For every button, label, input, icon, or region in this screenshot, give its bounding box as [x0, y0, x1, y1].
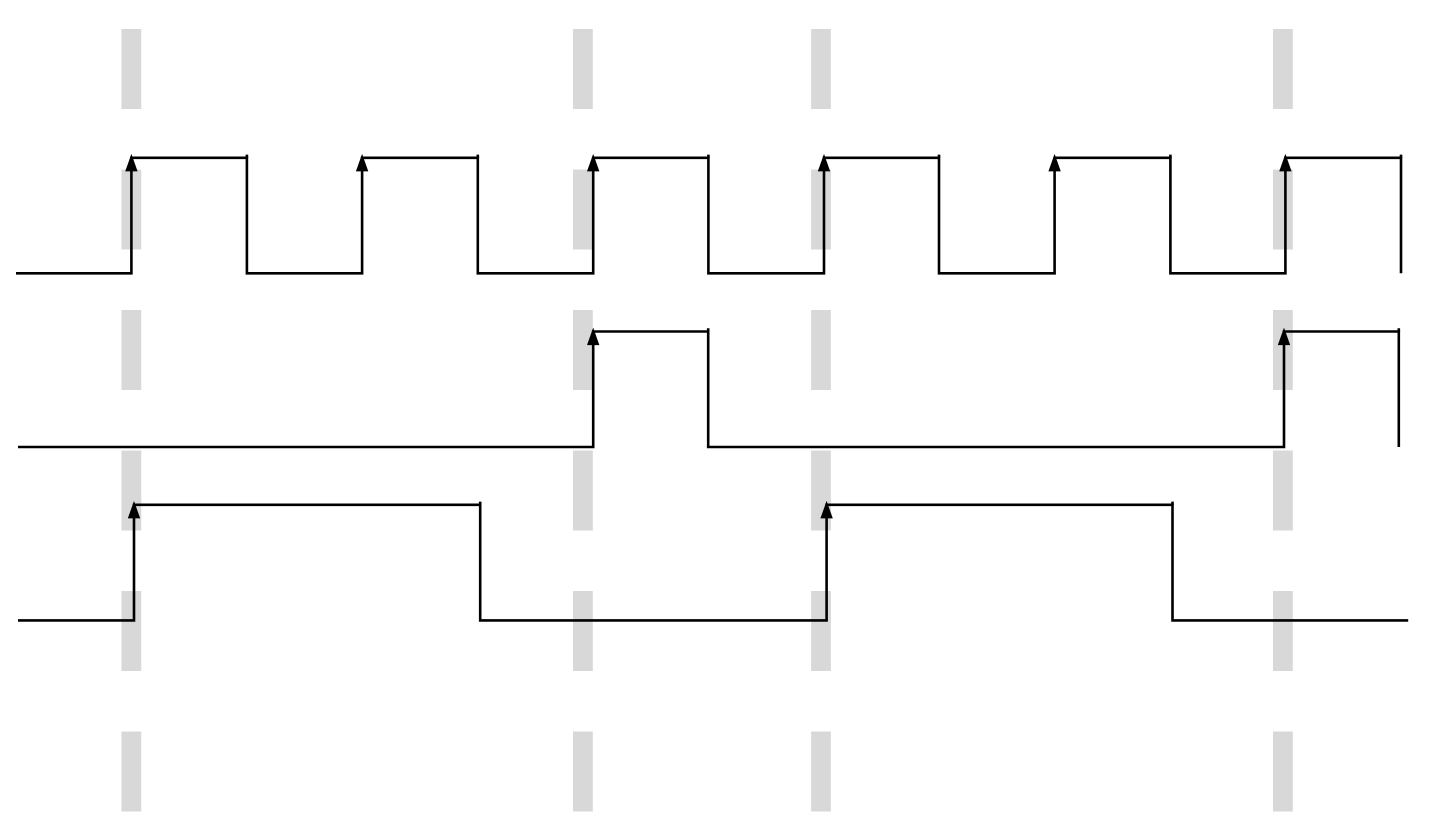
- sample marker dashed line t4: [1273, 29, 1293, 812]
- CLK rising-edge arrow 4: [818, 154, 830, 172]
- row2 rising-edge arrow 1: [587, 328, 599, 346]
- row3 falling-edge corner ticks: [480, 502, 1172, 505]
- clock waveform CLK (row 1): [16, 158, 1401, 273]
- CLK rising-edge arrow 3: [587, 154, 599, 172]
- CLK falling-edge corner ticks: [247, 155, 1401, 158]
- pulse waveform (row 2): [18, 332, 1399, 448]
- CLK rising-edge arrow 2: [356, 154, 368, 172]
- CLK rising-edge arrow 5: [1048, 154, 1060, 172]
- row3 rising-edge arrow 1: [128, 501, 140, 519]
- sample marker dashed line t1: [121, 29, 141, 812]
- sample marker dashed line t3: [811, 29, 831, 812]
- sample marker dashed line t2: [573, 29, 593, 812]
- divided waveform (row 3): [18, 505, 1408, 621]
- row3 rising-edge arrow 2: [820, 501, 832, 519]
- row2 rising-edge arrow 2: [1278, 328, 1290, 346]
- CLK rising-edge arrow 6: [1279, 154, 1291, 172]
- row2 falling-edge corner ticks: [708, 328, 1399, 331]
- CLK rising-edge arrow 1: [125, 154, 137, 172]
